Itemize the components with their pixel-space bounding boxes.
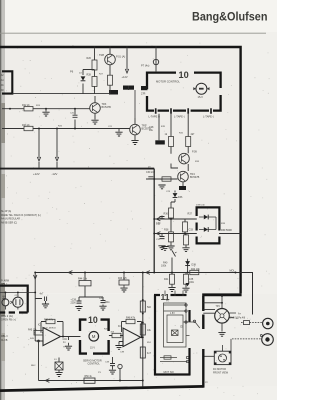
svg-text:CONTROL: CONTROL [88,363,101,366]
svg-text:MBL 2 (4x): MBL 2 (4x) [1,315,13,318]
svg-text:Bang&Olufsen: Bang&Olufsen [192,9,268,23]
svg-text:100n: 100n [105,302,111,304]
svg-text:R38: R38 [164,229,169,232]
svg-text:LED: LED [2,296,6,298]
svg-text:C04: C04 [63,339,68,341]
svg-text:MOL: MOL [230,269,236,272]
svg-text:BC547B: BC547B [102,106,112,109]
svg-text:27R: 27R [141,92,146,95]
svg-text:MOT NO: MOT NO [164,370,174,374]
svg-text:TR8: TR8 [99,53,104,57]
svg-text:D38: D38 [192,264,197,267]
svg-text:L-TAPE B: L-TAPE B [149,115,161,119]
svg-text:C37: C37 [99,298,104,300]
svg-text:R37: R37 [188,213,193,216]
svg-text:P6: P6 [70,70,74,74]
svg-text:5k6: 5k6 [147,306,152,309]
svg-text:R42 10k: R42 10k [191,269,200,271]
svg-text:A4 (A) REGULAR: A4 (A) REGULAR [1,218,20,221]
svg-text:IC1: IC1 [38,323,42,326]
svg-text:P- ARM: P- ARM [1,280,9,283]
svg-text:R46 47k: R46 47k [44,319,54,322]
svg-text:A8 9B SER (C): A8 9B SER (C) [1,221,17,224]
svg-text:IC1: IC1 [118,325,122,328]
svg-text:100k: 100k [161,265,167,268]
svg-text:MOTOR CONTROL: MOTOR CONTROL [156,80,180,84]
svg-text:CL FB: CL FB [1,340,8,342]
svg-text:SL 4P (A): SL 4P (A) [1,210,11,213]
svg-text:1/2 LM2904: 1/2 LM2904 [44,328,56,330]
svg-text:100n: 100n [189,281,195,284]
svg-text:R28: R28 [87,74,92,77]
svg-text:-12V: -12V [52,172,58,176]
svg-text:MBL 3: MBL 3 [1,336,8,338]
svg-text:L-TAPE-|: L-TAPE-| [203,115,214,119]
svg-text:OPEN FB (+): OPEN FB (+) [1,318,16,321]
svg-text:R44 10k: R44 10k [78,277,88,280]
svg-text:10u: 10u [149,129,154,132]
svg-text:+12V: +12V [122,75,128,79]
svg-text:FRONT VIEW: FRONT VIEW [213,371,229,374]
svg-text:R22 2k: R22 2k [22,104,30,107]
svg-text:L-TAPE-|: L-TAPE-| [174,115,185,119]
svg-text:82R: 82R [161,126,165,128]
svg-text:R43 1k5: R43 1k5 [118,278,127,280]
svg-text:R45 15k: R45 15k [28,330,37,332]
svg-text:MBL 1: MBL 1 [1,284,8,286]
svg-text:10: 10 [179,70,189,80]
svg-text:MADE TEL: BACK R (COMPACT) (L): MADE TEL: BACK R (COMPACT) (L) [1,214,41,217]
svg-text:R23 2k: R23 2k [22,124,30,127]
svg-text:BC547B: BC547B [190,176,200,179]
svg-text:15 V: 15 V [90,346,95,349]
svg-text:R48 47k: R48 47k [126,317,136,320]
svg-text:D39 D40: D39 D40 [196,205,205,207]
svg-text:OPB: OPB [15,295,20,297]
svg-text:1.5V: 1.5V [170,313,175,315]
svg-text:+C36: +C36 [71,300,77,302]
svg-text:+12V: +12V [33,172,40,176]
svg-text:R36: R36 [164,213,169,216]
svg-text:P7 (4x): P7 (4x) [141,64,149,68]
svg-text:P.01 (A): P.01 (A) [116,55,125,59]
svg-text:M: M [92,334,96,339]
svg-text:15 V: 15 V [198,95,204,99]
svg-text:4k7: 4k7 [191,133,196,136]
svg-text:R39 560R: R39 560R [221,229,232,232]
svg-text:C33: C33 [189,229,194,232]
svg-text:2200: 2200 [71,303,77,305]
svg-text:P.09: P.09 [192,151,197,154]
svg-text:R41: R41 [164,278,169,281]
svg-text:TP4: TP4 [216,306,221,308]
svg-text:R26: R26 [87,57,92,60]
svg-text:4n7: 4n7 [147,352,152,355]
svg-text:REC: REC [31,365,36,367]
svg-text:R50 1k: R50 1k [85,376,93,378]
svg-text:D36: D36 [178,196,183,199]
svg-text:C30 2n2: C30 2n2 [146,171,156,174]
svg-text:10: 10 [88,315,98,325]
svg-text:GND 12 Pa 4/8: GND 12 Pa 4/8 [230,318,246,320]
